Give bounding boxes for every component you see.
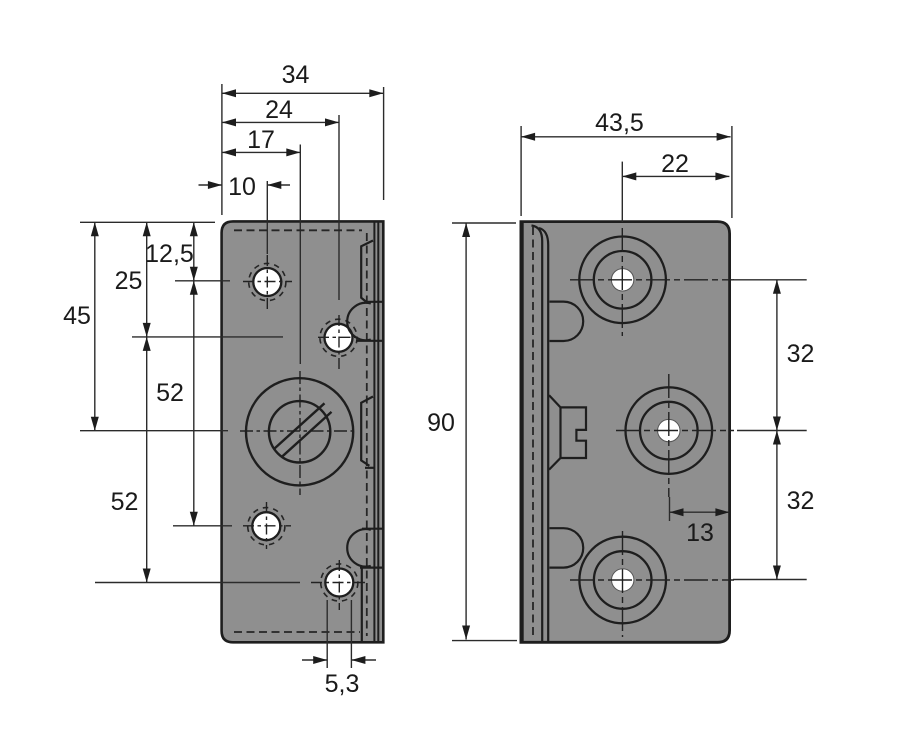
- centerline hole5: [311, 560, 365, 610]
- arrow 45 top: [91, 222, 99, 236]
- hole1 dashed circle: [249, 263, 286, 300]
- svg-text:22: 22: [661, 150, 689, 178]
- arrow 17 right: [286, 148, 300, 156]
- arrow 17 left: [222, 148, 236, 156]
- arrow 22 right: [715, 172, 729, 180]
- hidden dashed vertical right: [366, 233, 368, 636]
- hole2: [325, 324, 353, 352]
- arrow 52a top: [190, 281, 198, 295]
- mid tab profile: [361, 397, 373, 466]
- centerline top hole R: [570, 228, 734, 336]
- lower boss bottom line: [360, 566, 383, 568]
- arrow 43,5 left: [521, 133, 535, 141]
- ext 22 left: [621, 162, 623, 222]
- lower vertical edge under boss: [361, 568, 363, 641]
- hole4 dashed circle: [248, 508, 285, 545]
- arrow 32 bottom: [773, 566, 781, 580]
- upper tab stub line: [366, 301, 383, 303]
- ext line 34 left: [221, 84, 223, 215]
- svg-text:10: 10: [228, 173, 256, 201]
- arrow 43,5 right: [717, 133, 731, 141]
- hole5 dashed circle: [321, 564, 358, 601]
- plate body left view: [222, 221, 384, 642]
- row ext y=337: [132, 336, 283, 338]
- 90 ext top: [452, 222, 516, 224]
- row ext y=431: [80, 430, 228, 432]
- 90 ext bottom: [452, 640, 517, 642]
- svg-text:43,5: 43,5: [595, 109, 644, 137]
- svg-text:34: 34: [282, 61, 310, 89]
- arrow 13 left: [670, 508, 684, 516]
- screw slot line 1: [275, 403, 325, 448]
- dim line 12,5/52: [193, 222, 195, 526]
- hole2 dashed circle: [320, 319, 357, 356]
- dim line 34: [222, 92, 383, 94]
- big screw head inner: [269, 401, 330, 462]
- 32 row stubs: [733, 279, 807, 281]
- dim line 22: [622, 175, 729, 177]
- lower D-bump front: [550, 528, 584, 567]
- arrow 34 right: [369, 89, 383, 97]
- row ext y=582.5: [95, 582, 300, 584]
- fold line outer: [539, 228, 548, 641]
- arrow 5,3 outside-right: [351, 656, 365, 664]
- arrow 34 left: [222, 89, 236, 97]
- arrow 24 left: [222, 118, 236, 126]
- arrow 10 outside-right: [267, 181, 281, 189]
- centerline hole2: [318, 315, 360, 372]
- arrow 45 bottom: [91, 417, 99, 431]
- centerline hole4: [243, 502, 291, 549]
- top hole R outer: [579, 236, 666, 323]
- arrow 32 mid-up: [773, 431, 781, 445]
- hole4: [252, 512, 280, 540]
- top hole R bore: [611, 269, 633, 291]
- arrow 32 top: [773, 280, 781, 294]
- dim line 25/52: [146, 222, 148, 582]
- centerline hole1: [243, 255, 292, 311]
- mid hole R middle: [640, 402, 698, 460]
- big screw hole outer: [246, 378, 353, 485]
- bottom hole R outer: [579, 537, 666, 624]
- upper D-bump front: [550, 302, 584, 341]
- arrow 12,5 bottom: [190, 267, 198, 281]
- bottom hole R bore: [612, 569, 634, 591]
- 5,3 tails: [302, 659, 327, 661]
- arrow 22 left: [622, 172, 636, 180]
- right face vertical line 2: [377, 221, 379, 642]
- svg-text:32: 32: [787, 340, 815, 368]
- dim line 24: [222, 121, 339, 123]
- top row ext left column: [80, 221, 215, 223]
- centerline mid hole R: [616, 374, 734, 497]
- svg-text:32: 32: [787, 487, 815, 515]
- wire: interior extension line x=267 to hole1: [266, 181, 268, 254]
- centerline big hole: [240, 371, 356, 495]
- fold hidden dashed line: [532, 227, 534, 638]
- hidden dashed line top inset: [234, 229, 362, 231]
- top hole R middle: [594, 251, 652, 309]
- 5,3 ext lines: [326, 600, 328, 668]
- arrow 90 bottom: [462, 626, 470, 640]
- mid tab front with notch: [549, 395, 586, 469]
- upper boss arc around hole2: [347, 303, 371, 340]
- hole1: [253, 268, 281, 296]
- bottom hole R middle: [594, 551, 652, 609]
- svg-text:24: 24: [265, 96, 293, 124]
- plate body right view: [521, 222, 730, 643]
- arrow 52b top: [143, 337, 151, 351]
- svg-text:45: 45: [63, 302, 91, 330]
- ext 43,5/22 right: [731, 126, 733, 218]
- arrow 13 right: [715, 508, 729, 516]
- fold line inner: [532, 226, 543, 642]
- right face vertical line 1: [373, 221, 375, 642]
- arrow 52b bottom: [143, 569, 151, 583]
- upper boss bottom line: [356, 340, 383, 342]
- mid hole R outer: [626, 387, 713, 474]
- lower boss arc around hole5: [347, 529, 371, 566]
- 32 dim line: [776, 280, 778, 580]
- wire: interior extension line x=339 (24): [338, 115, 340, 300]
- dim line 17: [222, 151, 300, 153]
- upper tab profile: [361, 241, 373, 303]
- dim line 13: [670, 511, 730, 513]
- screw slot line 2: [282, 412, 332, 457]
- wire: interior extension line x=300 (17): [299, 145, 301, 365]
- arrow 52a bottom: [190, 512, 198, 526]
- svg-text:52: 52: [111, 488, 139, 516]
- mid tab stub line: [365, 467, 375, 469]
- svg-text:90: 90: [427, 409, 455, 437]
- ext 43,5 left: [520, 126, 522, 216]
- arrow 25 top: [143, 222, 151, 236]
- left flange edge thick: [520, 221, 524, 643]
- arrow 25 bottom: [143, 323, 151, 337]
- arrow 10 outside-left: [208, 181, 222, 189]
- 13 ext line: [669, 497, 671, 521]
- arrow 32 mid-down: [773, 417, 781, 431]
- lower boss top line: [362, 528, 383, 530]
- svg-text:25: 25: [115, 267, 143, 295]
- hidden dashed line bottom inset: [234, 631, 360, 633]
- svg-text:13: 13: [686, 519, 714, 547]
- svg-text:12,5: 12,5: [145, 240, 194, 268]
- mid hole R bore: [658, 419, 680, 441]
- ext line 34 right: [383, 87, 385, 200]
- mid tab inner vertical: [559, 407, 561, 458]
- arrow 24 right: [325, 118, 339, 126]
- arrow 90 top: [462, 223, 470, 237]
- svg-text:17: 17: [247, 126, 275, 154]
- dim 10 tails: [199, 184, 222, 186]
- arrows: [91, 89, 781, 664]
- svg-text:5,3: 5,3: [325, 670, 360, 698]
- centerline bottom hole R: [570, 531, 734, 637]
- svg-text:52: 52: [156, 379, 184, 407]
- dim line 45: [94, 222, 96, 430]
- arrow 5,3 outside-left: [313, 656, 327, 664]
- row ext y=281.5: [175, 280, 230, 282]
- arrow 12,5 top: [190, 222, 198, 236]
- dim line 43,5: [521, 136, 731, 138]
- row ext y=526: [173, 525, 232, 527]
- dim line 90: [465, 223, 467, 640]
- hole5: [325, 569, 353, 597]
